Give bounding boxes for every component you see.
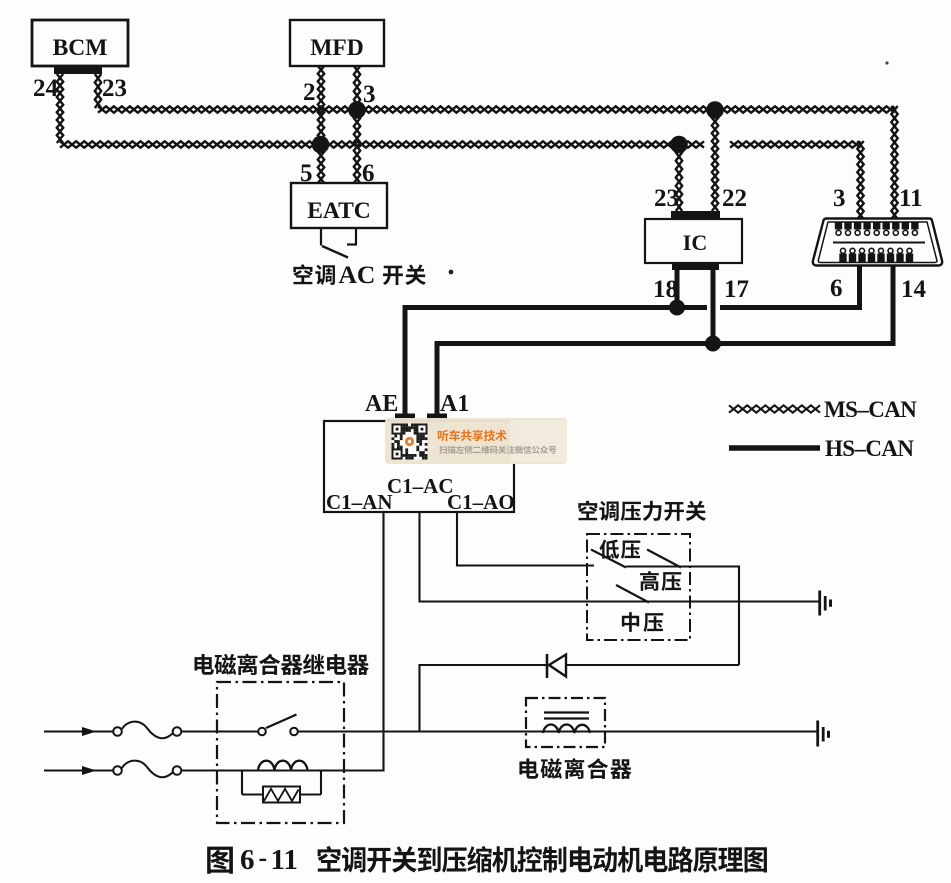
watermark background: [385, 418, 567, 464]
legend MS-CAN sample: [729, 405, 820, 412]
svg-text:AC: AC: [339, 260, 376, 289]
compressor control module: [324, 421, 514, 512]
caption 图6-11: [207, 847, 233, 874]
watermark QR code: [392, 424, 428, 460]
low pressure switch blade 1: [591, 550, 626, 568]
fuse F2: [113, 761, 181, 778]
wire IC pin22: [712, 110, 718, 211]
svg-text:BCM: BCM: [53, 35, 108, 61]
DLC bottom pin row: [841, 248, 846, 253]
pin AE terminal stub: [395, 414, 415, 422]
label 电磁离合器继电器: [194, 654, 368, 675]
clutch coil L1: [543, 725, 590, 733]
clutch core lines: [544, 711, 589, 713]
wire low pressure switch output: [626, 565, 739, 567]
label 空调压力开关: [578, 501, 706, 522]
resistor R1 (parallel with coil): [242, 771, 321, 803]
svg-text:C1–AC: C1–AC: [387, 474, 454, 498]
ground G1: [820, 591, 831, 616]
label 高压: [640, 571, 681, 591]
wire IC pin23: [676, 144, 682, 211]
HS-CAN riser to DLC pin14: [891, 265, 896, 346]
wire pressure switch right riser: [738, 566, 740, 666]
svg-text:AE: AE: [365, 391, 398, 417]
svg-text:2: 2: [303, 79, 316, 106]
relay switch left contact: [258, 728, 266, 736]
junction MFD pin3 / upper bus: [348, 101, 366, 119]
svg-text:6: 6: [362, 160, 375, 187]
wire diode branch riser to relay output: [418, 664, 420, 733]
svg-text:6: 6: [240, 844, 255, 876]
svg-text:A1: A1: [440, 391, 469, 417]
BCM connector bar: [54, 66, 102, 74]
AC switch blade: [322, 246, 348, 258]
module EATC: [291, 183, 387, 228]
svg-text:HS–CAN: HS–CAN: [825, 436, 914, 461]
wire fuse F2 to relay coil: [181, 769, 383, 771]
MS-CAN bus lower wire (right of gap): [730, 141, 861, 147]
high pressure switch blade: [616, 585, 649, 603]
connector DLC inner outline: [818, 222, 937, 263]
wire clutch to ground: [590, 730, 817, 732]
arrow feed 1: [82, 727, 97, 736]
svg-text:3: 3: [833, 185, 846, 212]
wire C1-AC drop: [418, 512, 420, 602]
AC pressure switch box: [587, 534, 690, 640]
low pressure switch blade 2: [647, 550, 681, 568]
module IC: [645, 219, 742, 263]
svg-text:11: 11: [899, 185, 923, 212]
AC switch right contact: [355, 228, 357, 244]
connector DLC outline: [813, 219, 942, 266]
svg-text:22: 22: [722, 185, 747, 212]
wire relay switch output: [298, 730, 526, 732]
svg-text:-: -: [259, 843, 268, 872]
junction MFD pin2 / lower bus: [312, 136, 330, 154]
wire battery feed 2 (coil circuit): [44, 769, 114, 771]
watermark subtitle: [439, 446, 556, 454]
junction IC pin22 / upper bus: [706, 101, 724, 119]
wire EATC pin5: [318, 144, 324, 183]
DLC middle separator: [833, 242, 925, 244]
MS-CAN bus lower wire (left of gap): [60, 141, 704, 147]
wire MFD pin3: [354, 66, 360, 108]
wire fuse F1 to relay switch: [181, 730, 258, 732]
wire MFD pin2: [318, 66, 324, 143]
HS-CAN drop to module pin A1: [435, 341, 440, 415]
wire C1-AC to ground through high/mid pressure switch: [419, 600, 820, 602]
wire under clutch coil: [543, 730, 590, 732]
svg-text:23: 23: [102, 75, 127, 102]
wire IC pin18 (HS-CAN): [675, 270, 680, 308]
wire DLC pin11: [891, 106, 897, 219]
HS-CAN drop to module pin AE: [403, 305, 408, 415]
clutch box: [526, 698, 605, 747]
IC top connector bar: [671, 211, 720, 219]
svg-text:18: 18: [653, 276, 678, 303]
wire BCM pin23: [95, 74, 101, 108]
svg-text:EATC: EATC: [307, 198, 371, 224]
label 低压: [599, 540, 640, 559]
svg-text:23: 23: [654, 185, 679, 212]
wire DLC pin3: [857, 141, 863, 219]
wire diode branch horizontal: [420, 664, 740, 666]
HS-CAN wire A1 to DLC pin14: [437, 341, 893, 346]
wire battery feed 1 (switch circuit): [44, 730, 114, 732]
DLC top pin row: [835, 223, 842, 230]
stray speck top right: [885, 61, 888, 64]
svg-text:11: 11: [271, 844, 298, 876]
junction pin17 / HS wire: [705, 336, 721, 352]
wire C1-AN drop: [382, 512, 384, 772]
wire relay output to clutch: [526, 730, 543, 732]
relay K1 box: [217, 682, 344, 823]
wire IC pin17 (HS-CAN): [711, 270, 716, 344]
MS-CAN bus upper wire: [98, 106, 895, 112]
watermark title 听车共享技术: [438, 430, 507, 441]
wire C1-AO drop: [456, 512, 458, 567]
label 电磁离合器: [519, 758, 631, 779]
HS-CAN riser to DLC pin6: [857, 265, 862, 310]
junction pin18 / HS wire: [669, 300, 685, 316]
svg-text:C1–AO: C1–AO: [447, 490, 515, 514]
legend HS-CAN sample: [729, 445, 820, 451]
arrow feed 2: [82, 766, 97, 775]
svg-text:14: 14: [901, 276, 927, 303]
IC bottom connector bar: [672, 263, 719, 270]
svg-text:3: 3: [363, 81, 376, 108]
svg-text:IC: IC: [683, 230, 707, 255]
svg-text:17: 17: [724, 276, 749, 303]
svg-text:MS–CAN: MS–CAN: [824, 397, 917, 422]
junction IC pin23 / lower bus: [670, 136, 688, 154]
diode D1: [547, 654, 566, 678]
HS-CAN wire AE to DLC pin6, left segment: [405, 305, 707, 310]
svg-text:24: 24: [33, 75, 59, 102]
ground G2: [818, 721, 829, 747]
svg-text:6: 6: [830, 275, 843, 302]
label 空调AC开关: [293, 264, 335, 285]
AC switch left contact: [320, 228, 322, 246]
label 中压: [622, 612, 663, 632]
caption title: [318, 846, 767, 873]
svg-text:C1–AN: C1–AN: [326, 490, 393, 514]
svg-text:MFD: MFD: [310, 35, 364, 61]
module BCM: [32, 20, 128, 66]
relay switch blade: [266, 715, 297, 729]
relay switch right contact: [290, 728, 298, 736]
pin A1 terminal stub: [427, 414, 447, 422]
wire C1-AN to relay coil: [307, 769, 384, 771]
stray dot: [449, 270, 454, 275]
wire BCM pin24: [57, 74, 63, 143]
wire EATC pin6: [354, 110, 360, 183]
fuse F1: [113, 722, 181, 739]
HS-CAN wire AE to DLC pin6, right segment: [720, 305, 860, 310]
svg-text:5: 5: [300, 160, 313, 187]
wire C1-AO to low pressure switch: [457, 564, 594, 566]
module MFD: [290, 20, 384, 66]
relay coil winding: [258, 761, 308, 771]
